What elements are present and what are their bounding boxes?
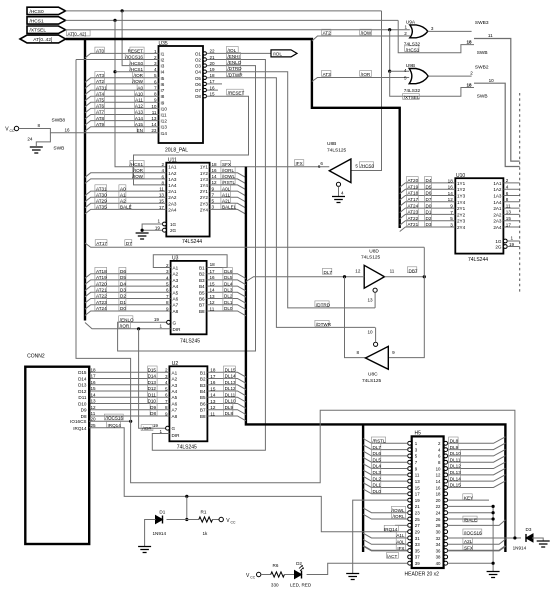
svg-text:1A4: 1A4 bbox=[493, 200, 502, 205]
svg-text:AT31: AT31 bbox=[96, 186, 107, 191]
svg-text:R1: R1 bbox=[201, 510, 207, 515]
svg-text:9: 9 bbox=[392, 350, 395, 355]
wire AT23 D1 to U10 bbox=[400, 214, 456, 219]
resistor R6 330 bbox=[271, 572, 285, 577]
IC U2 74LS245 bbox=[169, 366, 207, 441]
svg-text:/IORL: /IORL bbox=[393, 514, 405, 519]
svg-text:24: 24 bbox=[436, 511, 441, 516]
svg-text:A14: A14 bbox=[135, 116, 144, 121]
svg-text:DL8: DL8 bbox=[225, 411, 234, 416]
svg-text:D14: D14 bbox=[148, 374, 157, 379]
svg-text:13: 13 bbox=[506, 210, 512, 215]
svg-text:DL13: DL13 bbox=[225, 380, 236, 385]
svg-text:2Y3: 2Y3 bbox=[200, 201, 209, 206]
U10 1G 2G to edge bbox=[503, 239, 507, 243]
svg-text:11: 11 bbox=[390, 268, 395, 273]
svg-text:B3: B3 bbox=[200, 383, 206, 388]
stub U35 pin16 bbox=[207, 89, 219, 91]
wire DB7 down to U8C input bbox=[388, 277, 424, 358]
svg-text:2Y4: 2Y4 bbox=[457, 225, 466, 230]
wire A2L H5 pin34 bbox=[448, 539, 506, 544]
wire /IOL to output flag bbox=[207, 52, 272, 54]
svg-text:D13: D13 bbox=[78, 383, 87, 388]
svg-text:1A3: 1A3 bbox=[168, 177, 177, 182]
svg-text:DL4: DL4 bbox=[373, 464, 382, 469]
svg-text:/HCS0: /HCS0 bbox=[129, 61, 143, 66]
svg-text:A3: A3 bbox=[173, 278, 179, 283]
wire H5 left DL1 bbox=[363, 483, 408, 488]
svg-text:A4: A4 bbox=[173, 284, 179, 289]
svg-text:19: 19 bbox=[153, 423, 159, 428]
svg-text:G: G bbox=[172, 426, 176, 431]
svg-text:DL12: DL12 bbox=[225, 386, 236, 391]
svg-text:D2: D2 bbox=[120, 294, 126, 299]
bus flag AT[0..42] bbox=[20, 35, 66, 43]
wire H5 left DL4 bbox=[363, 464, 408, 469]
svg-text:/HCS1: /HCS1 bbox=[129, 67, 143, 72]
svg-text:AT7: AT7 bbox=[96, 110, 105, 115]
svg-text:25: 25 bbox=[91, 423, 97, 428]
wire H5 right DL12 bbox=[448, 462, 506, 469]
svg-text:A1: A1 bbox=[120, 192, 126, 197]
svg-text:19: 19 bbox=[154, 317, 160, 322]
wire AT2 /IOW to U9A bbox=[312, 36, 410, 41]
svg-text:/ACT: /ACT bbox=[387, 554, 398, 559]
svg-text:B2: B2 bbox=[200, 377, 206, 382]
wire SWB to ground bbox=[36, 133, 50, 146]
wire U10 pin 2 to card edge bbox=[503, 182, 519, 184]
svg-text:A8: A8 bbox=[172, 414, 178, 419]
U3 G enable /ENLO bbox=[167, 320, 171, 324]
svg-text:/IOR: /IOR bbox=[361, 72, 371, 77]
svg-text:B4: B4 bbox=[199, 284, 205, 289]
svg-text:18: 18 bbox=[467, 83, 473, 88]
svg-text:DL1: DL1 bbox=[373, 483, 382, 488]
wire DL14 from U2 to bus bbox=[207, 379, 246, 384]
svg-text:3: 3 bbox=[431, 26, 434, 31]
svg-text:D15: D15 bbox=[78, 370, 87, 375]
svg-text:74LS244: 74LS244 bbox=[468, 257, 488, 263]
LED D2 bbox=[295, 571, 302, 579]
wire /ENLO bbox=[118, 66, 256, 351]
svg-text:25: 25 bbox=[415, 517, 420, 522]
wire H5 right DL10 bbox=[448, 449, 506, 456]
buffer U8C 74LS125 bbox=[366, 346, 389, 369]
svg-text:30: 30 bbox=[436, 529, 441, 534]
diode D3 1N914 bbox=[526, 534, 533, 542]
svg-text:6: 6 bbox=[165, 393, 168, 398]
wire H5 left DL3 bbox=[363, 470, 408, 475]
U8D enable bubble pin13 bbox=[373, 288, 377, 292]
svg-text:/HCS0: /HCS0 bbox=[361, 163, 375, 168]
wire KEY H5 pin20 bbox=[448, 499, 489, 501]
svg-text:D7: D7 bbox=[126, 241, 132, 246]
svg-text:27: 27 bbox=[415, 523, 420, 528]
svg-text:A2L: A2L bbox=[464, 539, 473, 544]
wire DL13 from U2 to bus bbox=[207, 385, 246, 390]
svg-text:16: 16 bbox=[65, 127, 71, 132]
wire H5 left /RSTL bbox=[363, 439, 408, 444]
svg-text:D0: D0 bbox=[120, 306, 126, 311]
wire /DTWR bbox=[207, 78, 376, 328]
svg-text:SWB: SWB bbox=[53, 146, 64, 152]
bus branch to H5 left bbox=[362, 424, 364, 552]
svg-text:B7: B7 bbox=[199, 303, 205, 308]
svg-text:O1: O1 bbox=[195, 51, 202, 56]
svg-text:I7: I7 bbox=[161, 88, 165, 93]
wire A0L H5 pin35 bbox=[363, 539, 408, 544]
svg-text:D15: D15 bbox=[148, 368, 157, 373]
wire AT5 A11 to U35 bbox=[85, 102, 159, 107]
svg-text:DL1: DL1 bbox=[224, 300, 233, 305]
svg-text:4: 4 bbox=[341, 190, 344, 195]
svg-text:D9: D9 bbox=[81, 408, 87, 413]
svg-text:/ENLO: /ENLO bbox=[120, 317, 134, 322]
AT bus left drop bbox=[84, 39, 86, 321]
svg-text:6: 6 bbox=[320, 161, 323, 166]
svg-text:1Y2: 1Y2 bbox=[457, 187, 466, 192]
wire AT21 D3 to U10 bbox=[400, 227, 456, 232]
svg-text:CC: CC bbox=[231, 520, 236, 524]
svg-text:8: 8 bbox=[161, 180, 164, 185]
svg-text:/IOL: /IOL bbox=[273, 51, 282, 57]
svg-text:I14: I14 bbox=[161, 131, 168, 136]
svg-text:AT22: AT22 bbox=[408, 216, 419, 221]
svg-text:12: 12 bbox=[448, 197, 454, 202]
wire AT22 D2 to U10 bbox=[400, 221, 456, 226]
svg-text:RESET: RESET bbox=[128, 49, 144, 54]
svg-text:11: 11 bbox=[488, 33, 493, 38]
svg-text:AT17: AT17 bbox=[408, 197, 419, 202]
svg-text:A6: A6 bbox=[173, 297, 179, 302]
IC U35 20L8_PAL bbox=[159, 46, 204, 143]
svg-text:/IOCS16: /IOCS16 bbox=[105, 416, 123, 421]
svg-text:D11: D11 bbox=[78, 395, 87, 400]
svg-text:CONN2: CONN2 bbox=[27, 354, 45, 360]
svg-text:O5: O5 bbox=[195, 76, 202, 81]
svg-text:14: 14 bbox=[210, 393, 216, 398]
svg-text:2: 2 bbox=[470, 71, 473, 76]
resistor R1 1k bbox=[187, 519, 199, 521]
svg-text:AT[0..42]: AT[0..42] bbox=[68, 32, 86, 37]
wire DL15 from U2 to bus bbox=[207, 372, 246, 377]
wire AT6 A12 to U35 bbox=[85, 108, 159, 113]
output flag /IOL bbox=[271, 50, 297, 57]
svg-text:AT18: AT18 bbox=[96, 269, 107, 274]
svg-text:/IOR: /IOR bbox=[142, 426, 152, 431]
wire DL2 from U3 to bus bbox=[207, 299, 246, 304]
svg-text:13: 13 bbox=[210, 294, 216, 299]
svg-text:DL3: DL3 bbox=[224, 288, 233, 293]
svg-text:16: 16 bbox=[91, 380, 97, 385]
svg-text:15: 15 bbox=[210, 281, 216, 286]
wire /XTSEL to U9A pin1 bbox=[66, 29, 410, 31]
svg-text:DL10: DL10 bbox=[225, 399, 236, 404]
svg-text:13: 13 bbox=[210, 399, 216, 404]
svg-text:I8: I8 bbox=[161, 94, 165, 99]
diode D1 1N914 bbox=[185, 495, 188, 498]
svg-text:D4: D4 bbox=[426, 178, 432, 183]
svg-text:74LS125: 74LS125 bbox=[361, 255, 381, 261]
wire /ENHI bbox=[152, 60, 265, 451]
svg-text:5: 5 bbox=[355, 163, 358, 168]
svg-text:8: 8 bbox=[356, 350, 359, 355]
svg-text:17: 17 bbox=[415, 492, 420, 497]
wire /XTSEL to SWB pin18 (B) bbox=[390, 71, 474, 96]
wire /HCS1 down to U11 1A1 bbox=[115, 20, 166, 166]
svg-text:19: 19 bbox=[509, 242, 515, 247]
svg-text:2Y1: 2Y1 bbox=[200, 189, 209, 194]
svg-text:I10: I10 bbox=[161, 106, 168, 111]
wire H5 right DL15 bbox=[448, 481, 506, 488]
svg-text:CC: CC bbox=[250, 575, 255, 579]
wire /HCS0 to U35 pin3 bbox=[122, 11, 158, 66]
svg-text:1Y2: 1Y2 bbox=[200, 171, 209, 176]
or-gate U9B 74LS32 bbox=[409, 69, 428, 84]
svg-text:/IOW: /IOW bbox=[133, 79, 144, 84]
svg-text:26: 26 bbox=[436, 517, 441, 522]
svg-text:5: 5 bbox=[450, 216, 453, 221]
svg-text:19: 19 bbox=[415, 498, 420, 503]
wire to U9B pin4 bbox=[390, 70, 410, 72]
svg-text:A2: A2 bbox=[173, 272, 179, 277]
svg-text:14: 14 bbox=[436, 479, 441, 484]
svg-text:D13: D13 bbox=[148, 380, 157, 385]
svg-text:B1: B1 bbox=[199, 266, 205, 271]
svg-text:5: 5 bbox=[165, 386, 168, 391]
wire /HCS0 down to U8B input bbox=[351, 11, 382, 171]
svg-text:B7: B7 bbox=[200, 408, 206, 413]
svg-text:AT20: AT20 bbox=[96, 281, 107, 286]
svg-text:A4: A4 bbox=[172, 389, 178, 394]
svg-text:6: 6 bbox=[506, 191, 509, 196]
svg-text:IO16CS: IO16CS bbox=[70, 419, 86, 424]
svg-text:2: 2 bbox=[165, 368, 168, 373]
svg-text:A7: A7 bbox=[173, 303, 179, 308]
svg-text:2Y1: 2Y1 bbox=[457, 206, 466, 211]
svg-text:A5: A5 bbox=[173, 290, 179, 295]
svg-text:D0: D0 bbox=[426, 203, 432, 208]
wire AT35 BALE to U11 bbox=[85, 209, 166, 214]
svg-text:/XTSEL: /XTSEL bbox=[30, 28, 47, 34]
wire /IOR to U11 1A2 bbox=[85, 173, 166, 178]
svg-text:D3: D3 bbox=[426, 222, 432, 227]
svg-text:4: 4 bbox=[506, 185, 509, 190]
svg-text:34: 34 bbox=[436, 542, 441, 547]
svg-text:A10: A10 bbox=[135, 91, 144, 96]
svg-text:40: 40 bbox=[436, 561, 441, 566]
svg-text:B4: B4 bbox=[200, 389, 206, 394]
svg-text:U8C: U8C bbox=[368, 372, 378, 378]
svg-text:A1: A1 bbox=[172, 370, 178, 375]
svg-text:11: 11 bbox=[91, 411, 96, 416]
svg-text:D12: D12 bbox=[78, 389, 87, 394]
svg-text:U9B: U9B bbox=[406, 63, 415, 69]
svg-text:B6: B6 bbox=[199, 297, 205, 302]
svg-text:1Y1: 1Y1 bbox=[200, 165, 209, 170]
svg-text:DL15: DL15 bbox=[225, 368, 236, 373]
svg-text:I3: I3 bbox=[161, 64, 165, 69]
svg-text:I5: I5 bbox=[161, 76, 165, 81]
wire U8B enable to gnd bbox=[338, 186, 340, 196]
svg-text:/HCS0: /HCS0 bbox=[30, 9, 44, 15]
svg-text:1Y1: 1Y1 bbox=[457, 181, 466, 186]
svg-text:B1: B1 bbox=[200, 370, 206, 375]
svg-text:A8: A8 bbox=[173, 309, 179, 314]
svg-text:DL7: DL7 bbox=[373, 445, 382, 450]
svg-text:36: 36 bbox=[436, 548, 441, 553]
wire U10 pin 6 to card edge bbox=[503, 195, 519, 197]
wire H5 pin22 to rail bbox=[448, 505, 494, 507]
svg-text:A0: A0 bbox=[120, 186, 126, 191]
svg-text:2G: 2G bbox=[170, 228, 177, 233]
svg-text:U11: U11 bbox=[168, 157, 177, 163]
svg-text:DL12: DL12 bbox=[450, 464, 461, 469]
wire AT18 D6 to U3 bbox=[85, 274, 171, 279]
svg-text:B8: B8 bbox=[199, 309, 205, 314]
svg-text:D11: D11 bbox=[148, 392, 157, 397]
svg-text:38: 38 bbox=[436, 555, 441, 560]
svg-text:AT23: AT23 bbox=[96, 300, 107, 305]
svg-text:DB7: DB7 bbox=[409, 268, 418, 273]
svg-text:D2: D2 bbox=[296, 561, 302, 566]
svg-text:1N914: 1N914 bbox=[513, 545, 527, 550]
wire U3 A1-B1 loop bbox=[153, 255, 227, 268]
svg-text:23: 23 bbox=[415, 511, 420, 516]
wire DL10 from U2 to bus bbox=[207, 404, 246, 409]
svg-text:D12: D12 bbox=[148, 386, 157, 391]
svg-text:32: 32 bbox=[436, 536, 441, 541]
svg-text:15: 15 bbox=[91, 386, 97, 391]
wire AT4 A10 to U35 bbox=[85, 96, 159, 101]
svg-text:4: 4 bbox=[154, 67, 157, 72]
svg-text:8: 8 bbox=[165, 405, 168, 410]
svg-text:12: 12 bbox=[91, 405, 97, 410]
svg-text:D7: D7 bbox=[426, 197, 432, 202]
svg-text:/DTRD: /DTRD bbox=[316, 302, 331, 307]
wire U10 pin 15 to card edge bbox=[503, 220, 519, 222]
wire AT17 D7 to U10 bbox=[400, 202, 456, 207]
svg-text:DL7: DL7 bbox=[324, 270, 333, 275]
svg-text:/DTWR: /DTWR bbox=[228, 72, 244, 77]
wire A1L H5 pin33 bbox=[363, 533, 408, 538]
wire H5 pin39 to LED D2 bbox=[307, 563, 408, 574]
svg-text:2A2: 2A2 bbox=[168, 195, 177, 200]
svg-text:IRQ14: IRQ14 bbox=[108, 423, 122, 428]
svg-text:AT5: AT5 bbox=[96, 98, 105, 103]
connector CONN2 bbox=[25, 367, 89, 544]
svg-text:10: 10 bbox=[436, 466, 441, 471]
wire U10 pin 11 to card edge bbox=[503, 207, 519, 209]
svg-text:/HCS1: /HCS1 bbox=[129, 162, 143, 167]
svg-text:74LS245: 74LS245 bbox=[177, 444, 197, 450]
svg-text:24: 24 bbox=[27, 137, 33, 142]
svg-text:1Y4: 1Y4 bbox=[200, 183, 209, 188]
svg-text:D14: D14 bbox=[78, 376, 87, 381]
svg-text:11: 11 bbox=[506, 203, 511, 208]
svg-text:2: 2 bbox=[161, 162, 164, 167]
svg-text:AT0: AT0 bbox=[96, 49, 105, 54]
svg-text:28: 28 bbox=[436, 523, 441, 528]
U2 G enable /IOR bbox=[166, 426, 170, 430]
svg-text:DL9: DL9 bbox=[225, 405, 234, 410]
svg-text:BALE: BALE bbox=[120, 205, 132, 210]
svg-text:U8D: U8D bbox=[369, 248, 379, 254]
wire /IOCS16 route U35/H5 bbox=[76, 60, 515, 539]
svg-text:DL6: DL6 bbox=[224, 269, 233, 274]
wire H5 pin26 to rail bbox=[448, 518, 494, 520]
svg-text:2A3: 2A3 bbox=[493, 219, 502, 224]
or-gate U9A 74LS32 bbox=[410, 25, 428, 38]
svg-text:AT35: AT35 bbox=[96, 205, 107, 210]
wire SWB3 pin11 to right rail bbox=[474, 39, 520, 162]
svg-text:SWB8: SWB8 bbox=[52, 118, 66, 124]
wire AT29 A2 to U11 bbox=[85, 203, 166, 208]
svg-text:2A4: 2A4 bbox=[493, 225, 502, 230]
svg-text:16: 16 bbox=[210, 275, 216, 280]
wire DL4 from U3 to bus bbox=[207, 286, 246, 291]
wire AT19 D5 to U10 bbox=[400, 189, 456, 194]
svg-text:AT2: AT2 bbox=[96, 79, 105, 84]
svg-text:37: 37 bbox=[415, 555, 420, 560]
svg-text:/ENLO: /ENLO bbox=[228, 60, 242, 65]
svg-text:O3: O3 bbox=[195, 64, 202, 69]
svg-text:DL10: DL10 bbox=[450, 451, 461, 456]
svg-text:10: 10 bbox=[489, 78, 495, 83]
ground SWB bbox=[30, 147, 43, 153]
svg-text:A1: A1 bbox=[173, 266, 179, 271]
svg-text:AT20: AT20 bbox=[408, 178, 419, 183]
svg-text:1G: 1G bbox=[170, 222, 177, 227]
wire H5 right DL11 bbox=[448, 456, 506, 463]
wire U10 pin 8 to card edge bbox=[503, 201, 519, 203]
svg-text:AT21: AT21 bbox=[96, 288, 107, 293]
wire AT20 D4 to U10 bbox=[400, 183, 456, 188]
svg-text:17: 17 bbox=[210, 374, 216, 379]
wire U10 pin 13 to card edge bbox=[503, 213, 519, 215]
wire /RESET bbox=[134, 96, 249, 185]
svg-text:17: 17 bbox=[91, 374, 97, 379]
svg-text:U35: U35 bbox=[159, 41, 168, 47]
wire SFX H5 pin36 bbox=[448, 546, 506, 551]
svg-text:2A4: 2A4 bbox=[168, 207, 177, 212]
svg-text:AT23: AT23 bbox=[408, 210, 419, 215]
U11 1G 2G enables to ground bbox=[163, 222, 167, 226]
svg-text:I2: I2 bbox=[161, 58, 165, 63]
svg-text:AT4: AT4 bbox=[96, 91, 105, 96]
svg-text:/DTRD: /DTRD bbox=[228, 66, 243, 71]
svg-text:13: 13 bbox=[368, 298, 374, 303]
svg-text:16: 16 bbox=[436, 485, 441, 490]
svg-text:D8: D8 bbox=[81, 414, 87, 419]
svg-text:D10: D10 bbox=[148, 399, 157, 404]
svg-text:DL11: DL11 bbox=[450, 457, 461, 462]
svg-text:I13: I13 bbox=[161, 125, 168, 130]
svg-text:AT9: AT9 bbox=[96, 122, 105, 127]
svg-text:AT3: AT3 bbox=[96, 73, 105, 78]
svg-text:14: 14 bbox=[91, 392, 97, 397]
wire H5 pin19 to ground bbox=[353, 500, 408, 573]
svg-text:D3: D3 bbox=[526, 527, 532, 532]
svg-text:D1: D1 bbox=[159, 510, 165, 515]
wire D9 CONN2 to U2 bbox=[89, 409, 169, 411]
svg-text:R6: R6 bbox=[273, 563, 279, 568]
svg-text:SFX: SFX bbox=[222, 162, 231, 167]
svg-text:12: 12 bbox=[210, 405, 216, 410]
svg-text:AT30: AT30 bbox=[96, 192, 107, 197]
svg-text:HEADER 20 x2: HEADER 20 x2 bbox=[405, 572, 440, 578]
wire AT0 RESET to U35 bbox=[85, 53, 159, 58]
